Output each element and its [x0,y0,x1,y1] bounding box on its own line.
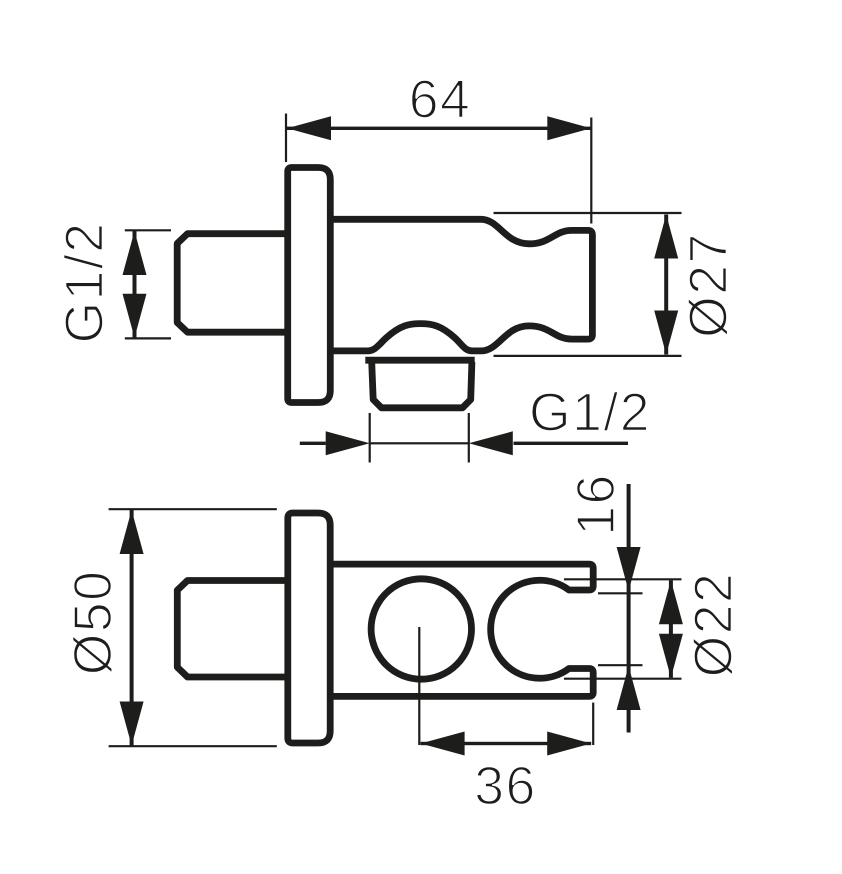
diam50 dim: bottom extension line [109,745,277,747]
G1/2 left dim: bottom extension line [125,337,171,339]
svg-text:64: 64 [409,71,472,130]
wall plate (side view, top figure) [288,168,331,403]
outlet flange line (side view) [365,357,474,364]
svg-text:16: 16 [567,473,626,536]
16 dim: bottom extension line [598,664,643,666]
diam27 dim double arrow [664,215,668,355]
G1/2 left dim double arrow [133,231,137,338]
outlet dim: right extension line [468,413,470,463]
36 dim line with arrowheads [421,742,592,745]
64 dim line with arrowheads [287,127,591,130]
16 dim: vertical dimension line [627,484,631,733]
diam27 dim: top extension line [494,212,682,214]
outlet dim: left extension line [369,413,371,463]
svg-text:Ø27: Ø27 [680,232,739,338]
36 dim: right extension line [592,703,594,745]
svg-text:Ø22: Ø22 [685,572,744,678]
diam50 dim: top extension line [109,508,277,510]
inlet nipple (front view) [177,581,287,678]
svg-text:36: 36 [474,757,537,816]
inlet nipple G1/2 (side view) [177,234,287,333]
cone socket circle (front view) [371,579,471,679]
64 dim: left extension line [285,114,287,163]
outlet G1/2 dim: connecting line [370,442,469,444]
64 dim: right extension line [590,118,592,224]
G1/2 left dim: top extension line [125,229,171,231]
16 dim: top extension line [598,592,643,594]
svg-text:G1/2: G1/2 [529,384,651,443]
svg-text:G1/2: G1/2 [56,222,115,344]
36 dim: centre line from socket circle [418,627,420,745]
outlet G1/2 dim: left outside arrow [300,442,326,445]
outlet G1/2 dim: right outside arrow [514,442,629,445]
diam27 dim: bottom extension line [494,355,682,357]
bracket body with fork tabs (front view) [330,564,593,696]
diam22 dim double arrow [669,580,673,677]
16 dim: upper outside arrow [617,547,641,591]
svg-text:Ø50: Ø50 [64,570,123,676]
diam22 dim: top extension line [564,578,682,580]
holder arm body with saddle profile (side view) [330,219,592,351]
16 dim: lower outside arrow [617,666,641,710]
wall plate (front view, bottom figure) [288,513,330,743]
diam22 dim: bottom extension line [564,678,682,680]
diam50 dim double arrow [130,510,134,746]
outlet trapezoid G1/2 (side view) [372,362,472,408]
